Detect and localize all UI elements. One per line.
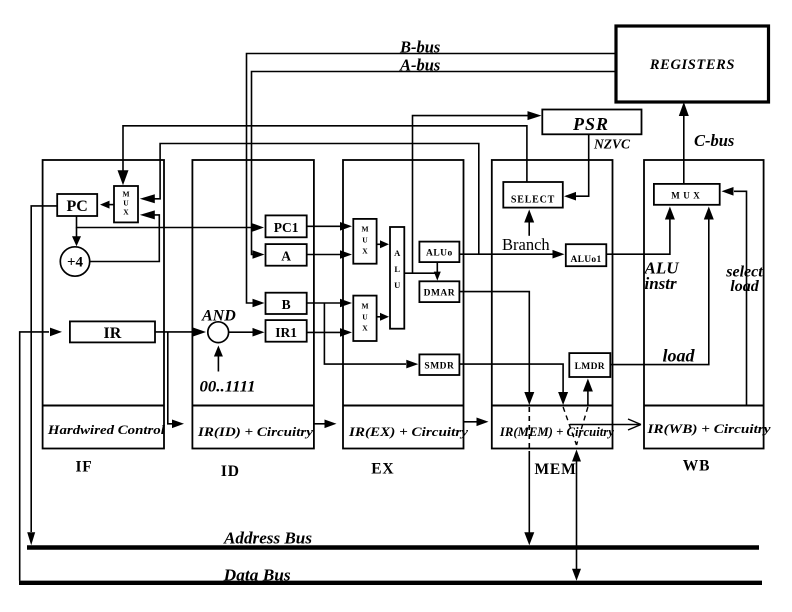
label Branch [502,235,550,254]
wire ALU flags to PSR [413,111,542,273]
divider MEM row [492,405,613,407]
wire EX to MEM stage [464,418,489,427]
svg-text:IR(ID) + Circuitry: IR(ID) + Circuitry [197,424,313,439]
divider WB row [644,405,764,407]
label ID [221,463,240,480]
wire B to EX MUX2 [307,299,352,308]
wire +4 to IF MUX [90,210,160,261]
wire B-bus: REGISTERS to B latch [247,54,617,308]
stage box MEM [492,160,613,449]
wire Branch to SELECT [524,210,534,236]
dashed wire memory load path [577,407,588,445]
label EX [371,461,394,478]
svg-text:U: U [362,313,368,322]
wire MUX1 to ALU [377,240,389,248]
svg-text:EX: EX [371,461,394,478]
divider IF control row [43,405,164,407]
bus Data Bus [19,581,762,585]
latch A [266,244,307,266]
svg-text:ALUo1: ALUo1 [570,255,601,265]
label NZVC [593,137,631,152]
svg-text:ALUo: ALUo [426,249,453,259]
label AND [201,308,236,325]
wire NZVC: PSR to SELECT [564,134,589,200]
svg-text:ID: ID [221,463,240,480]
register PC [57,194,97,216]
register PSR [542,110,641,135]
wire C-bus: MUX to REGISTERS [679,102,689,184]
svg-text:X: X [123,208,129,217]
wire select load to WB MUX [722,187,747,406]
wire PC to PC1 and +4 [72,216,264,246]
wire data bus to IR [20,328,62,581]
wire SMDR to memory [459,364,568,405]
svg-text:U: U [394,280,400,290]
svg-text:M: M [122,190,129,199]
mux EX MUX1 [353,219,376,264]
wire AND to IR1 [229,328,265,337]
label C-bus [694,131,734,150]
label IR(ID) + Circuitry [197,424,313,439]
svg-text:REGISTERS: REGISTERS [649,57,735,73]
svg-text:IR(WB) + Circuitry: IR(WB) + Circuitry [646,421,770,436]
svg-text:M: M [361,225,368,234]
wire MEM to data bus [572,450,581,581]
svg-text:instr: instr [645,274,678,293]
svg-text:SMDR: SMDR [424,362,454,372]
svg-text:Data Bus: Data Bus [223,566,291,585]
wire ALUo forwarding to IF MUX [140,144,479,255]
svg-text:PC1: PC1 [274,220,299,235]
label load [663,346,696,366]
wire SELECT to IF MUX top [118,126,527,185]
svg-text:load: load [663,346,696,366]
latch PC1 [266,215,307,237]
mux EX MUX2 [353,296,376,341]
svg-text:PC: PC [67,198,88,215]
stage box WB [644,160,764,449]
label A-bus [399,56,440,75]
svg-text:M: M [361,302,368,311]
label IR(WB) + Circuitry [646,421,770,436]
wire mask 00..1111 to AND [214,346,223,372]
mux IF MUX [114,186,138,222]
svg-text:L: L [394,264,400,274]
wire IR to AND gate [155,328,206,337]
wire MEM to WB stage [570,419,641,430]
wire ALU output [404,272,437,274]
label B-bus [399,38,440,57]
latch ALUo [419,242,459,263]
svg-text:LMDR: LMDR [575,362,605,372]
svg-text:U: U [123,199,129,208]
register file REGISTERS [616,26,769,102]
latch IR1 [266,320,307,342]
svg-text:load: load [730,278,759,295]
label Address Bus [223,529,312,548]
svg-text:IR: IR [104,325,122,342]
svg-text:MEM: MEM [535,461,577,478]
svg-text:B-bus: B-bus [399,38,440,57]
divider EX row [343,405,464,407]
stage box EX [343,160,464,449]
wire PC1 to EX MUX1 [307,222,352,231]
label Hardwired Control [47,422,166,437]
svg-text:X: X [362,324,368,333]
select unit SELECT [503,182,563,208]
svg-text:DMAR: DMAR [424,289,456,299]
svg-text:PSR: PSR [572,114,609,134]
svg-text:X: X [362,247,368,256]
label ALU instr [644,259,680,294]
label WB [683,458,710,475]
label select load [725,264,763,296]
wire A to EX MUX1 [307,250,352,259]
label IF [75,459,92,476]
wire ALUo to ALUo1 [459,250,564,259]
wire IF to ID stage [168,332,184,428]
wire ID to EX stage [314,420,337,429]
svg-text:IR(EX) + Circuitry: IR(EX) + Circuitry [348,424,468,439]
svg-text:IF: IF [75,459,92,476]
svg-text:NZVC: NZVC [593,137,631,152]
svg-text:00..1111: 00..1111 [200,379,256,396]
wire B to SMDR [324,303,418,368]
svg-text:IR1: IR1 [275,325,297,340]
svg-text:Hardwired Control: Hardwired Control [47,422,166,437]
label MEM [535,461,577,478]
latch SMDR [419,354,459,375]
stage box ID [192,160,314,449]
wire MUX2 to ALU [377,313,389,321]
register IR [70,321,155,342]
wire A-bus: REGISTERS to A latch [252,72,617,259]
wire LMDR to WB MUX [610,207,714,365]
svg-text:+4: +4 [67,255,84,271]
svg-text:MUX: MUX [671,191,703,201]
latch LMDR [569,353,610,377]
latch B [266,293,307,314]
label IR(MEM) + Circuitry [499,425,615,439]
dashed wire memory store path [563,407,576,445]
latch ALUo1 [566,244,607,266]
svg-text:C-bus: C-bus [694,131,734,150]
svg-text:SELECT: SELECT [511,195,555,206]
svg-text:AND: AND [201,308,236,325]
svg-text:A: A [394,248,401,258]
svg-text:A-bus: A-bus [399,56,440,75]
wire PC to address bus [27,206,57,545]
svg-text:Branch: Branch [502,235,550,254]
adder +4 [60,247,89,276]
label 00..1111 [200,379,256,396]
svg-text:B: B [282,297,291,312]
alu ALU [390,227,404,329]
wire ALUo to DMAR [434,262,441,281]
label IR(EX) + Circuitry [348,424,468,439]
label Data Bus [223,566,291,585]
bus Address Bus [27,545,759,549]
svg-text:U: U [362,236,368,245]
gate AND [208,322,229,343]
wire ALUo1 to WB MUX [606,207,675,255]
svg-text:A: A [281,249,291,264]
wire IR1 to EX MUX2 [307,328,352,337]
svg-text:Address Bus: Address Bus [223,529,312,548]
wire DMAR to address bus [459,292,534,546]
wire memory to LMDR [583,379,593,406]
svg-text:WB: WB [683,458,710,475]
stage box IF [43,160,164,449]
svg-text:IR(MEM) + Circuitry: IR(MEM) + Circuitry [499,425,615,439]
mux WB MUX [654,184,720,205]
wire MUX to PC [100,201,114,209]
divider ID row [192,405,314,407]
latch DMAR [419,281,459,302]
